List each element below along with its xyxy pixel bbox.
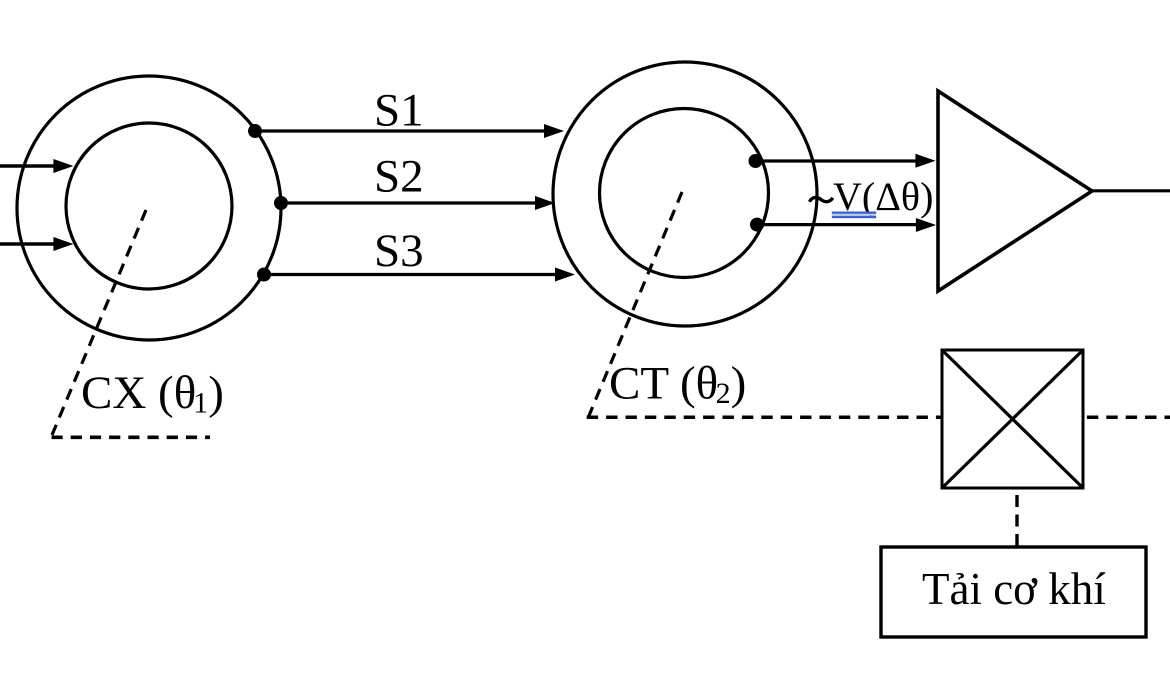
CX shaft dashed horizontal line [52,435,211,439]
synchro control transformer CT inner rotor circle [600,109,769,278]
node S2 terminal dot on CX stator [274,196,288,210]
label ~V(delta theta) [810,197,833,201]
dashed mechanical link right of motor [1087,416,1170,420]
svg-text:Tải cơ khí: Tải cơ khí [922,564,1106,614]
CX rotor excitation input arrow (top) [0,159,74,173]
synchro transmitter CX outer stator circle [17,76,281,340]
node S1 terminal dot on CX stator [248,124,262,138]
synchro control transformer CT outer stator circle [553,62,817,326]
dashed mechanical link CT to motor [587,416,942,420]
CT rotor output terminal dot (bottom) [750,218,764,232]
servo motor box with X [942,350,1083,488]
svg-text:S3: S3 [374,225,424,277]
dashed vertical link motor to load [1015,495,1018,547]
CX shaft dashed diagonal line [52,210,146,435]
wire S1 with arrowhead to CT [255,124,564,138]
mechanical load box [881,547,1146,637]
wire S2 with arrowhead to CT [281,196,555,210]
amplifier output wire [1092,189,1170,192]
blue double underline under V(delta) [832,212,876,219]
CT rotor output terminal dot (top) [749,154,763,168]
CT shaft dashed diagonal line [588,192,682,418]
amplifier triangle U1 [938,91,1092,291]
wire S3 with arrowhead to CT [264,268,575,282]
wire CT rotor to amplifier (top) with arrowhead [756,154,936,168]
synchro transmitter CX inner rotor circle [66,123,232,289]
node S3 terminal dot on CX stator [257,268,271,282]
svg-text:S2: S2 [374,151,424,203]
wire CT rotor to amplifier (bottom) with arrowhead [757,218,936,232]
CX rotor excitation input arrow (bottom) [0,237,74,251]
svg-text:S1: S1 [374,85,424,137]
